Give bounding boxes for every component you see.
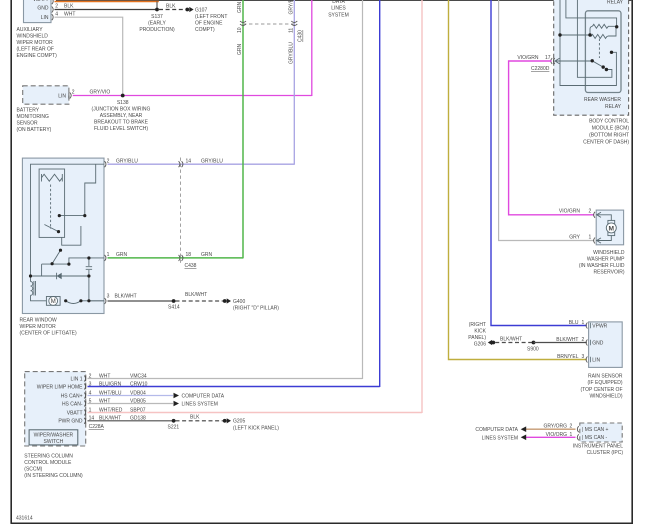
svg-text:BLK/WHT: BLK/WHT <box>185 292 207 298</box>
pump motor symbol M <box>608 220 615 224</box>
svg-text:PWR GND: PWR GND <box>58 419 83 425</box>
inner relay sub-box <box>39 169 65 237</box>
wire WHT/BLU VDB04 to data-lines arrow <box>88 395 174 397</box>
svg-text:OF ENGINE: OF ENGINE <box>195 20 223 26</box>
junction dots inside wiper motor <box>58 214 61 217</box>
svg-text:M: M <box>51 299 56 305</box>
common rail <box>42 264 69 276</box>
switch common wire from pin 17 <box>555 58 592 64</box>
svg-text:(LEFT KICK PANEL): (LEFT KICK PANEL) <box>233 425 279 431</box>
wire GRY/BLU from pin 2 to vertical riser <box>108 0 295 165</box>
svg-text:BLU: BLU <box>569 320 579 326</box>
pin 2 bracket <box>52 7 53 13</box>
connector C430 (in-line, dashed) on GRN and GRY/BLU risers <box>243 23 294 25</box>
svg-text:S137: S137 <box>151 14 163 20</box>
svg-text:(TOP CENTER OF: (TOP CENTER OF <box>580 387 622 393</box>
svg-text:LIN: LIN <box>58 94 66 100</box>
wire GRY riser to washer pump pin 1 <box>499 0 595 241</box>
SCCM pin brackets <box>84 376 86 424</box>
svg-text:GRN: GRN <box>201 252 213 258</box>
wire WHT VDB05 to data-lines arrow <box>88 403 174 405</box>
svg-text:LIN 1: LIN 1 <box>71 376 83 382</box>
wire BLU/GRN CRW10 (right then up) <box>88 0 380 387</box>
relay output path 2 (from NO contact to top) <box>577 0 612 77</box>
svg-text:S414: S414 <box>168 305 180 311</box>
wire GRY/VIO from LIN to S138 and right, then up at x=312.6 <box>73 0 312 96</box>
link bar with junction dots <box>59 164 95 215</box>
pin 1 rail with jog <box>69 258 104 264</box>
svg-text:COMPT): COMPT) <box>195 27 215 33</box>
splice S900 <box>532 341 536 345</box>
wire BLK/WHT S900 to rain sensor pin 2 <box>534 342 587 344</box>
wire BLK/WHT dashed G206 to S900 <box>495 342 533 344</box>
svg-text:2: 2 <box>72 90 75 96</box>
svg-text:C430: C430 <box>298 30 304 42</box>
pin bracket orange <box>52 0 53 4</box>
coil resistor zigzag <box>42 174 63 182</box>
svg-text:(IN STEERING COLUMN): (IN STEERING COLUMN) <box>24 473 83 479</box>
svg-text:G107: G107 <box>195 7 207 13</box>
svg-text:BLK: BLK <box>64 4 74 10</box>
ground G206 with arrow <box>488 340 492 345</box>
pin 4 bracket <box>52 14 53 20</box>
svg-text:(LEFT REAR OF: (LEFT REAR OF <box>17 47 54 53</box>
svg-text:GRY/VIO: GRY/VIO <box>90 89 111 95</box>
svg-text:C228A: C228A <box>89 424 105 430</box>
svg-text:GND: GND <box>37 5 49 11</box>
svg-text:GRY/BLU: GRY/BLU <box>289 42 295 64</box>
wiper/washer switch (inner box) <box>29 430 78 445</box>
svg-text:GRN: GRN <box>116 252 128 258</box>
svg-text:G400: G400 <box>233 299 245 305</box>
svg-text:(ON BATTERY): (ON BATTERY) <box>17 127 52 133</box>
svg-text:ASSEMBLY, NEAR: ASSEMBLY, NEAR <box>100 113 143 119</box>
ground G205 <box>223 419 227 423</box>
svg-text:GRY: GRY <box>569 235 580 241</box>
relay junction dots <box>558 33 561 36</box>
svg-text:BODY CONTROL: BODY CONTROL <box>589 118 629 124</box>
svg-text:VIO/GRN: VIO/GRN <box>559 209 581 215</box>
svg-text:CONTROL MODULE: CONTROL MODULE <box>24 460 72 466</box>
svg-text:| MS CAN -: | MS CAN - <box>582 435 608 441</box>
svg-text:SYSTEM: SYSTEM <box>328 12 349 18</box>
rear washer relay K2 (box) <box>585 11 621 93</box>
battery monitoring sensor (dashed box) <box>23 86 69 104</box>
splice S137 <box>155 8 159 12</box>
svg-text:GRY/BLU: GRY/BLU <box>116 158 138 164</box>
svg-text:AUXILIARY: AUXILIARY <box>17 27 44 33</box>
switch arm 2 <box>52 250 60 264</box>
tick from orange wire to splice S137 <box>156 2 158 10</box>
svg-text:G205: G205 <box>233 419 245 425</box>
relay feed path top (to coil right) <box>566 0 617 26</box>
svg-text:COMPUTER DATA: COMPUTER DATA <box>475 427 518 433</box>
wire BLK dashed to G107 <box>159 9 186 11</box>
svg-text:INSTRUMENT PANEL: INSTRUMENT PANEL <box>573 444 623 450</box>
svg-text:BREAKOUT TO BRAKE: BREAKOUT TO BRAKE <box>94 119 149 125</box>
svg-text:KICK: KICK <box>474 329 486 335</box>
splice S221 <box>172 419 176 423</box>
auxiliary windshield wiper motor U-AUX (box, cut at top) <box>24 0 52 23</box>
ground G400 <box>223 299 227 303</box>
svg-text:(RIGHT "D" PILLAR): (RIGHT "D" PILLAR) <box>233 305 279 311</box>
svg-text:LIN: LIN <box>41 15 49 21</box>
svg-text:FLUID LEVEL SWITCH): FLUID LEVEL SWITCH) <box>94 126 148 132</box>
svg-text:C438: C438 <box>185 263 197 269</box>
svg-text:PRODUCTION): PRODUCTION) <box>139 27 175 33</box>
svg-text:SENSOR: SENSOR <box>17 121 39 127</box>
pin 2 bracket <box>69 93 71 99</box>
wire BLK/WHT GD138 to S221 <box>88 420 174 422</box>
inductor <box>31 276 47 301</box>
dashed armature link <box>50 185 52 230</box>
svg-text:BLK: BLK <box>190 415 200 421</box>
page border left <box>10 0 12 523</box>
svg-text:431614: 431614 <box>16 515 33 521</box>
svg-text:M: M <box>609 225 615 232</box>
svg-text:BATTERY: BATTERY <box>17 108 40 114</box>
svg-text:(JUNCTION BOX WIRING: (JUNCTION BOX WIRING <box>92 106 151 112</box>
svg-text:2: 2 <box>570 423 573 429</box>
svg-text:18: 18 <box>186 252 192 258</box>
wire BLK/WHT dashed to G400 <box>176 300 223 302</box>
svg-text:RAIN SENSOR: RAIN SENSOR <box>588 374 623 380</box>
svg-text:STEERING COLUMN: STEERING COLUMN <box>24 453 73 459</box>
switch arm 1 <box>44 225 58 232</box>
wire WHT VMC34 (right then up) <box>88 0 363 379</box>
svg-text:G206: G206 <box>474 342 486 348</box>
svg-text:(IN WASHER FLUID: (IN WASHER FLUID <box>579 263 625 269</box>
brush arc <box>66 301 104 304</box>
svg-text:VBATT: VBATT <box>67 410 83 416</box>
svg-text:RESERVOIR): RESERVOIR) <box>593 270 624 276</box>
wire from pin 2 across top and down left side <box>31 164 105 276</box>
IPC pin brackets <box>577 426 578 440</box>
svg-text:MODULE (BCM): MODULE (BCM) <box>592 125 630 131</box>
diode row <box>31 273 89 279</box>
svg-text:1: 1 <box>589 235 592 241</box>
svg-text:REAR WINDOW: REAR WINDOW <box>20 318 58 324</box>
svg-text:1: 1 <box>582 320 585 326</box>
svg-text:LINES SYSTEM: LINES SYSTEM <box>182 401 218 407</box>
svg-text:HS CAN-: HS CAN- <box>62 401 83 407</box>
svg-text:PANEL): PANEL) <box>468 335 486 341</box>
wire VIO/ORG to computer-data arrow <box>526 436 576 438</box>
svg-text:(EARLY: (EARLY <box>148 20 166 26</box>
rain sensor pin brackets <box>586 323 587 363</box>
svg-text:4: 4 <box>55 11 58 17</box>
svg-text:WINDSHIELD: WINDSHIELD <box>17 34 49 40</box>
wire GRY/ORG to computer-data arrow <box>526 428 576 430</box>
relay feed path 1 (coil supply) <box>560 0 616 86</box>
switch arm <box>592 61 603 67</box>
svg-text:2: 2 <box>55 4 58 10</box>
svg-text:WIPER MOTOR: WIPER MOTOR <box>20 324 57 330</box>
svg-text:LINES: LINES <box>331 6 346 12</box>
svg-text:1: 1 <box>107 252 110 258</box>
svg-text:COMPUTER DATA: COMPUTER DATA <box>182 393 225 399</box>
step path under sub-box <box>62 226 81 245</box>
svg-text:LIN: LIN <box>592 357 600 363</box>
splice S414 <box>172 299 176 303</box>
wire BLK <box>55 9 158 11</box>
diode triangle <box>57 273 62 279</box>
svg-text:S138: S138 <box>117 100 129 106</box>
svg-text:GRY/BLU: GRY/BLU <box>289 0 295 15</box>
svg-text:HS CAN+: HS CAN+ <box>61 393 83 399</box>
svg-text:BLK/WHT: BLK/WHT <box>500 336 522 342</box>
wire BLK dashed to G205 <box>176 420 223 422</box>
svg-text:BLK: BLK <box>166 3 176 9</box>
svg-text:VPWR: VPWR <box>592 323 607 329</box>
svg-text:VBATT: VBATT <box>33 0 49 3</box>
svg-text:DATA: DATA <box>332 0 345 5</box>
svg-text:(BOTTOM RIGHT: (BOTTOM RIGHT <box>589 132 629 138</box>
cut-off wire along top edge <box>56 0 632 1</box>
wire GRN from pin 1 to vertical riser <box>108 0 244 258</box>
svg-text:LINES SYSTEM: LINES SYSTEM <box>482 435 518 441</box>
wire BLU riser to rain sensor pin 1 <box>491 0 587 326</box>
svg-text:RELAY: RELAY <box>605 104 622 110</box>
vertical to pin 3 row <box>89 276 104 301</box>
svg-text:(SCCM): (SCCM) <box>24 466 42 472</box>
svg-text:ENGINE COMPT): ENGINE COMPT) <box>17 53 58 59</box>
relay coil zigzag loop <box>592 24 616 28</box>
svg-text:10: 10 <box>237 27 243 33</box>
svg-text:WIPER LIMP HOME: WIPER LIMP HOME <box>37 384 83 390</box>
capacitor <box>86 258 92 276</box>
washer pump pin brackets <box>594 212 595 218</box>
connector C438 (in-line, dashed) <box>180 158 182 266</box>
wire BRN/YEL riser to rain sensor pin 3 <box>449 0 587 360</box>
svg-text:GRY/ORG: GRY/ORG <box>543 423 567 429</box>
steering column control module SCCM (dashed box) <box>25 372 86 446</box>
svg-text:3: 3 <box>582 354 585 360</box>
pin brackets on wiper motor <box>105 161 106 304</box>
wire WHT/RED SBP07 (right then up) <box>88 0 423 413</box>
BCM pin 17 bracket C2280D <box>551 58 554 64</box>
svg-text:S900: S900 <box>527 347 539 353</box>
instrument panel cluster IPC (dashed box) <box>580 423 622 442</box>
rotated wire labels at top <box>237 0 303 64</box>
body control module BCM (dashed box, cut at top) <box>554 0 629 115</box>
svg-text:2: 2 <box>107 158 110 164</box>
motor M symbol <box>49 297 58 306</box>
svg-text:3: 3 <box>107 294 110 300</box>
svg-text:S221: S221 <box>168 425 180 431</box>
svg-text:MONITORING: MONITORING <box>17 114 50 120</box>
svg-text:BRN/YEL: BRN/YEL <box>557 354 579 360</box>
wire WHT (LIN) down to S138 <box>55 17 123 94</box>
svg-text:CENTER OF DASH): CENTER OF DASH) <box>583 139 629 145</box>
svg-text:2: 2 <box>589 209 592 215</box>
svg-text:11: 11 <box>289 28 295 33</box>
svg-text:(CENTER OF LIFTGATE): (CENTER OF LIFTGATE) <box>20 331 77 337</box>
rain sensor (box) <box>589 322 623 368</box>
armature dashed link <box>598 39 600 58</box>
svg-text:(IF EQUIPPED): (IF EQUIPPED) <box>587 380 622 386</box>
svg-text:WINDSHIELD): WINDSHIELD) <box>589 393 622 399</box>
coil-left branch <box>560 34 590 36</box>
ground G107 <box>185 8 189 12</box>
svg-text:GRY/BLU: GRY/BLU <box>201 158 223 164</box>
svg-text:WIPER/WASHER: WIPER/WASHER <box>34 432 74 438</box>
wire VBATT orange (top) <box>55 1 159 3</box>
svg-text:WINDSHIELD: WINDSHIELD <box>593 250 625 256</box>
svg-text:WASHER PUMP: WASHER PUMP <box>587 257 625 263</box>
svg-text:WIPER MOTOR: WIPER MOTOR <box>17 40 54 46</box>
svg-text:WHT: WHT <box>64 11 75 17</box>
svg-text:GRN: GRN <box>237 44 243 56</box>
rear window wiper motor (box) <box>22 158 104 313</box>
svg-text:BLK/WHT: BLK/WHT <box>115 294 137 300</box>
windshield washer pump (box) <box>596 210 623 245</box>
svg-text:14: 14 <box>186 158 192 164</box>
svg-text:GND: GND <box>592 340 604 346</box>
svg-text:| MS CAN +: | MS CAN + <box>582 427 609 433</box>
svg-text:RELAY: RELAY <box>607 0 624 6</box>
motor M1 rect <box>46 297 60 306</box>
svg-text:GRN: GRN <box>237 2 243 14</box>
svg-text:(LEFT FRONT: (LEFT FRONT <box>195 14 227 20</box>
svg-text:REAR WASHER: REAR WASHER <box>584 97 621 103</box>
page border right <box>631 0 633 523</box>
splice S138 <box>121 94 125 98</box>
svg-text:C2280D: C2280D <box>531 66 550 72</box>
svg-text:(RIGHT: (RIGHT <box>469 322 486 328</box>
pump internal wires <box>596 212 611 243</box>
wire VIO/GRN from BCM 17 down to washer pump pin 2 <box>509 61 595 215</box>
svg-text:SWITCH: SWITCH <box>44 439 64 445</box>
page border bottom <box>11 522 634 524</box>
wire BLK/WHT from pin 3 to S414 <box>108 300 174 302</box>
svg-text:CLUSTER (IPC): CLUSTER (IPC) <box>587 450 624 456</box>
